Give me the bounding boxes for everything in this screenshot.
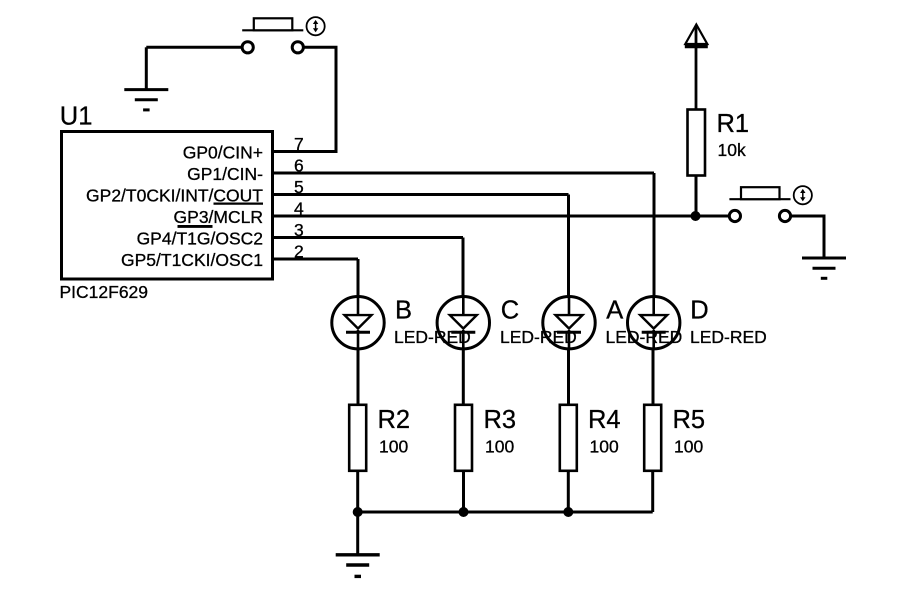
pin 5 GP2/T0CKI/INT/COUT [86, 177, 568, 206]
wire SW1 right terminal to pin 7 [272, 47, 336, 151]
svg-text:PIC12F629: PIC12F629 [60, 282, 149, 302]
chip U1 box [62, 132, 273, 280]
svg-text:U1: U1 [60, 103, 93, 131]
pin 4 GP3/MCLR [174, 199, 696, 228]
wire R5 to bus [651, 471, 654, 512]
ground bus wire [358, 511, 653, 514]
wire LED B to R2 [357, 348, 360, 405]
push button SW1 [242, 18, 303, 53]
LED D symbol [628, 297, 680, 350]
resistor R4 [560, 405, 621, 471]
svg-text:10k: 10k [718, 140, 746, 160]
wire ground to SW1 left terminal [146, 46, 242, 49]
resistor R5 [644, 405, 705, 471]
wire R2 to bus [356, 471, 359, 512]
svg-text:C: C [501, 297, 519, 325]
svg-text:5: 5 [294, 177, 304, 197]
wire R4 to bus [567, 471, 570, 512]
label LED D [690, 297, 767, 348]
push button SW2 [729, 187, 790, 221]
label LED B [394, 297, 471, 348]
svg-text:GP1/CIN-: GP1/CIN- [187, 164, 263, 184]
wire node to SW2 [696, 215, 730, 218]
svg-text:B: B [395, 297, 412, 325]
svg-text:7: 7 [294, 134, 304, 154]
pin 6 GP1/CIN- [187, 156, 654, 185]
actuator icon SW2 [794, 186, 812, 204]
svg-text:R3: R3 [484, 406, 517, 434]
wire pin 6 down to LED D [653, 173, 656, 299]
svg-text:2: 2 [294, 242, 304, 262]
svg-text:100: 100 [485, 437, 514, 457]
junction dot bus/B [353, 507, 363, 517]
svg-text:GP0/CIN+: GP0/CIN+ [183, 143, 263, 163]
svg-text:R4: R4 [588, 406, 621, 434]
LED C symbol [437, 297, 489, 350]
svg-text:LED-RED: LED-RED [606, 327, 683, 347]
wire SW2 right terminal to ground [791, 216, 824, 258]
pin 3 GP4/T1G/OSC2 [137, 220, 463, 249]
wire pin 5 down to LED A [567, 195, 570, 300]
svg-text:100: 100 [590, 437, 619, 457]
power arrow VCC [685, 25, 708, 110]
resistor R1 [688, 110, 750, 176]
svg-text:100: 100 [379, 437, 408, 457]
wire pin 2 down to LED B [357, 259, 360, 299]
label LED A [606, 297, 683, 348]
junction dot bus/C [459, 507, 469, 517]
resistor R2 [349, 405, 410, 471]
svg-text:A: A [606, 297, 623, 325]
junction dot bus/A [563, 507, 573, 517]
svg-text:LED-RED: LED-RED [394, 327, 471, 347]
ground GND2 (right) [802, 258, 846, 278]
svg-text:GP5/T1CKI/OSC1: GP5/T1CKI/OSC1 [121, 250, 263, 270]
actuator icon SW1 [307, 17, 325, 35]
LED A symbol [543, 297, 595, 350]
wire LED A to R4 [567, 348, 570, 405]
wire pin 3 down to LED C [462, 238, 465, 300]
wire R1 to node [695, 176, 698, 217]
svg-text:4: 4 [294, 199, 304, 219]
svg-text:100: 100 [674, 437, 703, 457]
svg-text:6: 6 [294, 156, 304, 176]
pin 7 GP0/CIN+ [183, 134, 304, 163]
svg-text:GP3/MCLR: GP3/MCLR [174, 207, 263, 227]
svg-text:R2: R2 [378, 406, 411, 434]
ground GND1 (top-left) [124, 47, 168, 110]
svg-text:3: 3 [294, 220, 304, 240]
svg-text:LED-RED: LED-RED [500, 327, 577, 347]
wire LED D to R5 [652, 348, 655, 405]
svg-text:GP4/T1G/OSC2: GP4/T1G/OSC2 [137, 229, 263, 249]
pin 2 GP5/T1CKI/OSC1 [121, 242, 358, 271]
ground GND3 (bottom) [336, 555, 380, 577]
wire bus to ground GND3 [356, 512, 359, 555]
svg-text:LED-RED: LED-RED [690, 327, 767, 347]
svg-text:R1: R1 [717, 110, 750, 138]
resistor R3 [455, 405, 516, 471]
wire R3 to bus [462, 471, 465, 512]
wire LED C to R3 [462, 348, 465, 405]
svg-text:D: D [690, 297, 708, 325]
label LED C [500, 297, 577, 348]
LED B (D?) symbol [332, 297, 384, 350]
node junction dot (R1 / pin4 / SW2) [691, 211, 701, 221]
svg-text:R5: R5 [673, 406, 706, 434]
